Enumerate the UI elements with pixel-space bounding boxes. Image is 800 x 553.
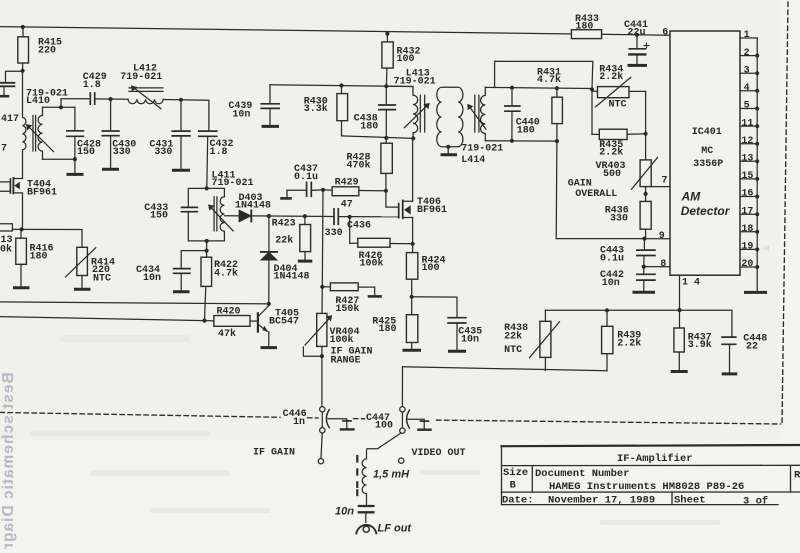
L410 core (33, 116, 36, 152)
svg-text:C436: C436 (347, 221, 371, 232)
capacitor C439 (261, 85, 279, 125)
resistor R423 (300, 216, 311, 259)
resistor R430 (337, 86, 348, 136)
node R427 junction (320, 285, 324, 289)
resistor R435 (592, 129, 646, 139)
capacitor C435 (448, 318, 466, 350)
inductor L412 (series, adjustable) (128, 85, 163, 108)
pin 18 stub (740, 231, 757, 233)
wire to C435 (412, 297, 457, 318)
svg-text:Detector: Detector (681, 204, 731, 218)
svg-text:470k: 470k (347, 159, 371, 171)
node VR404 bottom junction (320, 354, 324, 358)
resistor R431 (552, 88, 563, 141)
connector jack LF out (356, 525, 376, 534)
svg-text:L410: L410 (26, 96, 50, 107)
node R415 bottom junction (21, 69, 25, 73)
wire R434 right vertical (645, 91, 647, 133)
ground below L410 tank (68, 159, 82, 174)
svg-text:12: 12 (741, 136, 753, 147)
resistor R416 (16, 230, 27, 286)
svg-text:10n: 10n (143, 273, 161, 284)
L411 winding (220, 197, 224, 234)
capacitor C443 (637, 239, 655, 267)
capacitor C431 (172, 100, 190, 169)
diode D404 (261, 216, 277, 304)
svg-text:3 of: 3 of (743, 496, 768, 508)
wire L410 tank top edge (43, 106, 75, 108)
node R423 tap (303, 214, 307, 218)
svg-text:100: 100 (422, 263, 440, 274)
pin 4 stub (740, 90, 757, 92)
svg-text:330: 330 (154, 147, 172, 158)
svg-text:VIDEO OUT: VIDEO OUT (412, 448, 466, 459)
wire C429 to L412 (95, 98, 128, 100)
capacitor C428 (inline tank right edge) (67, 107, 84, 159)
capacitor 10n output (359, 506, 374, 522)
svg-text:330: 330 (113, 147, 131, 158)
ground (cut off, left edge) (0, 95, 8, 98)
svg-text:1: 1 (744, 30, 750, 41)
svg-text:4: 4 (744, 83, 750, 94)
node C441 tap (635, 33, 639, 37)
svg-text:180: 180 (360, 121, 378, 132)
svg-text:HAMEG Instruments HM8028 P89-2: HAMEG Instruments HM8028 P89-26 (549, 481, 744, 493)
svg-text:0.1u: 0.1u (600, 254, 624, 265)
pin 1 stub (740, 37, 757, 39)
svg-text:4.7k: 4.7k (214, 267, 238, 279)
dashed module border right (782, 2, 788, 424)
wire pin 8 row (644, 266, 670, 268)
resistor R437 (674, 310, 684, 369)
svg-text:1n: 1n (293, 417, 305, 428)
pin 11 stub (740, 125, 757, 127)
ground below C448 (723, 372, 736, 375)
svg-text:11: 11 (741, 118, 753, 129)
ground below T405 emitter (262, 346, 276, 349)
svg-text:AM: AM (681, 189, 702, 203)
feedthrough capacitor C447 (400, 407, 431, 434)
wire L412 to C432 corner (163, 100, 209, 131)
L413 core (420, 95, 424, 132)
node C443 top tap (642, 237, 646, 241)
capacitor C437 (series) (287, 182, 323, 196)
svg-text:180: 180 (575, 22, 593, 33)
wire pin 14 (679, 275, 681, 310)
pin 17 stub (740, 213, 757, 215)
svg-text:November 17, 1989: November 17, 1989 (548, 495, 655, 507)
ground below R425 (404, 349, 420, 352)
wire source node row (12, 229, 82, 247)
svg-text:719-021: 719-021 (120, 72, 162, 83)
node C442 top tap (642, 265, 646, 269)
svg-text:330: 330 (610, 213, 628, 224)
transistor T404 (dual gate MOSFET) (0, 178, 23, 229)
wire C436 to T406 gate2 (338, 216, 398, 218)
svg-text:1,5 mH: 1,5 mH (373, 468, 410, 480)
resistor R428 (381, 138, 392, 191)
wire IF-gain base line (0, 317, 214, 321)
capacitor C441 (electrolytic) (629, 35, 649, 64)
wire B+ branch row (270, 85, 413, 87)
pin 12 stub (740, 143, 757, 145)
inductor L414 secondary winding (481, 87, 486, 140)
svg-text:17: 17 (741, 206, 753, 217)
ground below C434 (175, 290, 189, 293)
wire long drop to pin9 row (555, 141, 558, 239)
feedthrough capacitor C446 (318, 356, 353, 464)
svg-text:417: 417 (1, 114, 19, 125)
L411 rectangle with C433 inline left edge (188, 188, 224, 241)
node C438 bottom (384, 136, 388, 140)
wire junction to T406 gate1 (386, 191, 399, 207)
bus junction dots (755, 54, 759, 269)
svg-text:100: 100 (375, 421, 393, 432)
IC right pin stubs and bus (740, 38, 759, 291)
capacitor C434 (174, 269, 190, 290)
resistor R434 (NTC) (592, 77, 646, 107)
capacitor (cut off, left edge) (0, 83, 14, 95)
capacitor C432 (series to tank) (199, 131, 217, 188)
inductor 1.5 mH (362, 449, 367, 506)
svg-text:719-021: 719-021 (212, 178, 254, 189)
inductor L414 center winding (437, 87, 463, 146)
node R426 tap (348, 215, 352, 219)
pin 2 stub (740, 55, 757, 57)
resistor R426 (350, 217, 413, 247)
svg-text:Date:: Date: (502, 495, 534, 507)
svg-text:47k: 47k (218, 328, 236, 340)
resistor R429 (323, 187, 386, 196)
ground below C430 (104, 168, 118, 171)
svg-text:22k: 22k (504, 331, 522, 343)
pin 13 stub (740, 160, 757, 162)
svg-text:2: 2 (744, 48, 750, 59)
svg-text:100k: 100k (330, 334, 354, 346)
ground below C441 (629, 64, 646, 67)
svg-text:7: 7 (1, 144, 7, 155)
ground below C431 (174, 169, 189, 172)
svg-text:5: 5 (744, 101, 750, 112)
node C431 tap (179, 98, 183, 102)
IC U401 box (670, 31, 740, 275)
svg-text:19: 19 (741, 242, 753, 253)
ground below R416 (15, 286, 29, 289)
wire IF-gain collector line (0, 302, 269, 304)
svg-text:1.8: 1.8 (83, 80, 101, 91)
svg-text:R423: R423 (272, 218, 296, 229)
svg-text:330: 330 (325, 228, 343, 239)
svg-text:22u: 22u (628, 27, 646, 38)
node C430 tap (109, 97, 113, 101)
wire output bus row (545, 309, 732, 311)
resistor R425 (406, 297, 417, 349)
svg-text:1N4148: 1N4148 (235, 200, 271, 211)
potentiometer VR403 (632, 134, 658, 194)
svg-text:10n: 10n (232, 109, 250, 120)
svg-text:100: 100 (397, 54, 415, 65)
svg-text:IF-Amplifier: IF-Amplifier (617, 453, 693, 465)
pin 15 stub (740, 178, 757, 180)
ground below L414 center (442, 147, 456, 155)
svg-text:2.2k: 2.2k (617, 337, 641, 349)
svg-text:220: 220 (38, 45, 56, 56)
pin 20 stub (740, 266, 757, 268)
inductor L410 primary winding (23, 71, 26, 179)
resistor R433 (on rail) (571, 30, 601, 39)
node R435 right junction (644, 132, 648, 136)
svg-text:47: 47 (341, 199, 353, 210)
resistor R424 (406, 244, 417, 297)
capacitor C430 (102, 99, 119, 167)
L414 core (475, 95, 479, 132)
pin 16 stub (740, 196, 757, 198)
wire pin bus (756, 38, 758, 291)
node R430 tap (339, 83, 343, 87)
svg-text:500: 500 (603, 169, 621, 180)
resistor R420 (214, 316, 258, 327)
wire L414 secondary top edge (485, 87, 592, 88)
node L411 top (205, 186, 209, 190)
L414 tuning arrow (467, 104, 486, 129)
svg-text:18: 18 (741, 224, 753, 235)
svg-text:4.7k: 4.7k (537, 74, 561, 86)
node R439 tap (605, 308, 609, 312)
svg-text:BF961: BF961 (27, 187, 57, 198)
node gain network left top (590, 87, 594, 91)
dashed module border bottom (0, 412, 781, 424)
svg-text:BC547: BC547 (269, 316, 299, 327)
node L410 tank top tap (59, 105, 63, 109)
svg-text:8: 8 (660, 259, 666, 270)
svg-text:IF GAIN: IF GAIN (253, 447, 295, 458)
svg-text:LF out: LF out (378, 523, 413, 535)
svg-text:R420: R420 (217, 307, 241, 318)
wire junction to C434 (181, 251, 206, 269)
svg-text:OVERALL: OVERALL (575, 189, 617, 200)
pin 19 stub (740, 248, 757, 250)
svg-text:NTC: NTC (504, 345, 522, 356)
resistor R436 (640, 194, 651, 239)
node R422/line junction (202, 319, 206, 323)
capacitor C436 (series) (334, 209, 338, 225)
node C437/R429/x-vertical junction (321, 188, 325, 192)
ground below C442 (634, 291, 654, 294)
transistor T405 (BC547 NPN) (258, 306, 269, 346)
node C440 bottom (510, 139, 514, 143)
svg-text:0k: 0k (0, 243, 12, 255)
svg-text:180: 180 (379, 324, 397, 335)
svg-text:10n: 10n (335, 506, 354, 518)
resistor R439 (602, 310, 613, 370)
svg-text:3356P: 3356P (693, 159, 723, 170)
wire L411 bottom to junction (206, 241, 208, 251)
resistor R414 (NTC) (66, 247, 96, 287)
svg-text:180: 180 (30, 251, 48, 262)
svg-text:13: 13 (741, 154, 753, 165)
svg-text:NTC: NTC (93, 273, 111, 284)
node R432/C438 tap (384, 84, 388, 88)
svg-text:10n: 10n (461, 334, 479, 345)
inductor L410 secondary winding (38, 107, 42, 159)
svg-text:L414: L414 (461, 155, 485, 166)
ground below R437 (672, 370, 686, 373)
node D404 tap (267, 214, 271, 218)
svg-text:Best schematic Diagr: Best schematic Diagr (0, 372, 17, 550)
L413 tuning arrow (404, 103, 429, 128)
svg-text:2.2k: 2.2k (599, 71, 623, 83)
ground below pin bus (746, 291, 766, 294)
ground below R423 (299, 260, 311, 263)
resistor R432 (382, 34, 393, 86)
ground below C435 (450, 350, 465, 353)
node rail R432 tap (385, 32, 389, 36)
svg-text:IC401: IC401 (692, 127, 722, 138)
node C440 top (510, 86, 514, 90)
resistor R415 (18, 27, 29, 70)
wire junction down to R427 (crosses signal row) (321, 190, 324, 287)
faint bleed-through blobs (30, 335, 720, 525)
svg-text:100k: 100k (360, 258, 384, 270)
wire video out drop to C447 (401, 367, 403, 407)
resistor R422 (201, 251, 212, 321)
node VR403/R436 junction (644, 192, 648, 196)
svg-text:3: 3 (744, 65, 750, 76)
wire L411 to D403 (224, 215, 239, 217)
svg-text:10n: 10n (602, 278, 620, 289)
L411 core (214, 197, 217, 231)
wire video out node row (403, 367, 608, 371)
svg-text:2.2k: 2.2k (599, 147, 623, 159)
inductor L413 primary winding (387, 86, 417, 138)
node pin14/R437 tap (677, 308, 681, 312)
svg-text:R429: R429 (335, 177, 359, 188)
wire R430 bottom row (342, 136, 414, 138)
svg-text:7: 7 (662, 175, 668, 186)
diode D403 (239, 210, 251, 221)
wire top link rail (495, 61, 593, 88)
node R431 top junction (555, 86, 559, 90)
node L413 bottom / drain (411, 136, 415, 140)
svg-text:BF961: BF961 (417, 205, 447, 216)
ground below C439 (263, 125, 278, 128)
svg-text:15: 15 (741, 171, 753, 182)
transistor T406 (dual gate MOSFET) (399, 138, 413, 244)
wire L410 tank bottom edge (43, 158, 75, 160)
node L411 bottom (205, 239, 209, 243)
svg-text:3.3k: 3.3k (304, 103, 328, 115)
node R428/R429/gate junction (384, 189, 388, 193)
ground below R414 (76, 288, 90, 291)
svg-text:Document Number: Document Number (535, 468, 630, 480)
svg-text:3.9k: 3.9k (688, 339, 712, 351)
node C434/R422 junction (205, 249, 209, 253)
wire gain network left vertical (591, 89, 593, 135)
ground below R427 (369, 295, 381, 298)
svg-text:1.8: 1.8 (210, 147, 228, 158)
svg-text:B: B (510, 479, 517, 491)
wire L414 secondary bottom edge (485, 140, 557, 142)
L411 tuning arrow (210, 207, 233, 231)
svg-text:719-021: 719-021 (461, 143, 503, 154)
node T406 source junction (411, 242, 415, 246)
svg-text:150: 150 (150, 211, 168, 222)
wire pin 9 row (556, 238, 670, 240)
wire signal node row (251, 215, 334, 218)
pin 3 stub (740, 72, 757, 74)
wire tank tap to C429 (61, 99, 89, 108)
capacitor C438 (379, 86, 396, 138)
wire to left edge capacitor (6, 71, 23, 82)
svg-text:16: 16 (741, 189, 753, 200)
capacitor C440 (505, 88, 520, 141)
svg-text:180: 180 (517, 125, 535, 136)
capacitor C429 (series) (90, 93, 94, 104)
capacitor C433 plates (182, 207, 198, 211)
svg-text:RANGE: RANGE (331, 356, 361, 367)
node R431 bottom junction (555, 139, 559, 143)
svg-text:NTC: NTC (609, 99, 627, 110)
svg-text:0.1u: 0.1u (294, 172, 318, 183)
svg-text:6: 6 (662, 27, 668, 38)
node T404 source junction (20, 227, 24, 231)
resistor R438 (NTC) (530, 310, 560, 370)
node T405 collector junction (267, 302, 271, 306)
capacitor C442 (637, 267, 655, 291)
svg-text:1 4: 1 4 (682, 278, 700, 289)
wire top supply rail (0, 27, 670, 36)
L410 tuning arrow (26, 124, 54, 152)
svg-text:22: 22 (746, 341, 758, 352)
pin 5 stub (740, 108, 757, 110)
switch lever video out (367, 433, 401, 449)
shield dashes beside coil (356, 456, 358, 495)
tank circuit L411 (182, 188, 234, 241)
capacitor C448 (722, 310, 736, 372)
svg-text:150k: 150k (335, 303, 359, 315)
node L410 tank bottom (73, 157, 77, 161)
svg-text:MC: MC (701, 146, 713, 157)
svg-text:150: 150 (77, 147, 95, 158)
svg-text:Sheet: Sheet (674, 495, 706, 507)
node L414 center bottom (446, 145, 450, 149)
svg-text:1N4148: 1N4148 (274, 271, 310, 282)
svg-text:R: R (794, 470, 800, 482)
wire pin 7 (651, 186, 670, 188)
resistor R413 (cut off, left edge) (0, 224, 12, 231)
svg-text:22k: 22k (275, 234, 293, 246)
svg-text:Size: Size (503, 467, 528, 479)
resistor R427 (322, 283, 374, 295)
node top rail / R415 junction (21, 25, 25, 29)
svg-text:719-021: 719-021 (394, 77, 436, 88)
title block frame (502, 445, 800, 505)
potentiometer VR404 (303, 287, 332, 356)
svg-text:20: 20 (741, 259, 753, 270)
node open terminal below switch (399, 458, 404, 463)
node R424 bottom junction (410, 295, 414, 299)
svg-text:9: 9 (659, 231, 665, 242)
ground C437 feed (282, 190, 291, 198)
